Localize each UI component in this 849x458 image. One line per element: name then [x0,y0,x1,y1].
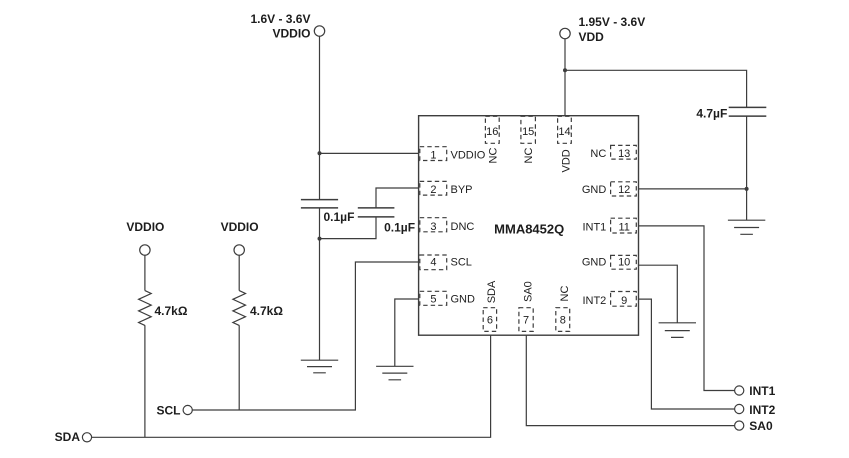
terminal circle VDD top right [560,28,570,38]
pin 12 dashed box [611,182,637,196]
wire R1 resistor to SDA line [144,255,146,437]
junction node pin1/VDDIO [318,151,322,155]
wire VDD branch to C3 [565,70,747,107]
svg-text:8: 8 [560,315,566,327]
pin 5 dashed box [420,291,447,305]
wire GND pin 5 to ground [395,299,419,366]
svg-text:NC: NC [523,148,535,164]
svg-text:VDDIO: VDDIO [126,220,164,234]
svg-text:9: 9 [621,295,627,307]
svg-text:1: 1 [430,149,436,161]
svg-text:SDA: SDA [486,280,498,303]
svg-text:NC: NC [590,148,606,160]
svg-text:VDD: VDD [561,149,573,172]
svg-text:VDD: VDD [579,30,605,44]
IC U1 MMA8452Q body [419,116,639,336]
junction node VDD branch [563,68,567,72]
svg-text:4: 4 [430,257,436,269]
pin 3 dashed box [420,218,447,232]
ground symbol below C1/C2 [301,360,338,373]
svg-text:11: 11 [618,222,629,234]
wire SCL pin 4 to SCL terminal [192,262,418,410]
wire SDA pin 6 to SDA terminal [92,335,491,437]
svg-text:GND: GND [582,184,607,196]
pin 13 dashed box [611,145,637,159]
wire VDDIO vertical from terminal to C1 top plate [319,36,321,199]
pin 14 dashed box [558,116,572,143]
svg-text:12: 12 [618,184,630,196]
pin 4 dashed box [420,255,447,270]
pin 1 dashed box [420,147,447,161]
wire C1 bottom down to ground [319,208,321,360]
svg-text:1.6V - 3.6V: 1.6V - 3.6V [250,12,310,26]
svg-text:INT1: INT1 [749,384,775,398]
junction node C2/ground [318,237,322,241]
ground symbol below pin 5 [376,366,413,380]
capacitor C3 4.7uF plates [729,107,767,116]
svg-text:BYP: BYP [451,184,473,196]
pin 6 dashed box [483,308,496,332]
svg-text:GND: GND [451,294,476,306]
wire INT1 pin 11 to INT1 terminal [639,226,735,391]
resistor R2 4.7k zigzag [233,291,246,326]
svg-text:NC: NC [487,148,499,164]
wire VDDIO to pin 1 [320,152,419,154]
svg-text:0.1µF: 0.1µF [384,221,415,235]
wire INT2 pin 9 to INT2 terminal [639,299,735,409]
svg-text:4.7kΩ: 4.7kΩ [250,304,283,318]
terminal circle INT1 [735,386,744,395]
resistor R1 4.7k zigzag [139,291,152,326]
svg-text:VDDIO: VDDIO [221,220,259,234]
svg-text:0.1µF: 0.1µF [324,210,355,224]
terminal circle SCL [183,405,192,414]
svg-text:INT2: INT2 [749,403,775,417]
svg-text:VDDIO: VDDIO [451,149,486,161]
svg-text:SCL: SCL [451,257,472,269]
svg-text:INT2: INT2 [582,295,606,307]
terminal circle R1 VDDIO [140,245,150,255]
svg-text:7: 7 [523,315,529,327]
svg-text:MMA8452Q: MMA8452Q [494,222,564,237]
svg-text:4.7µF: 4.7µF [696,106,727,120]
svg-text:DNC: DNC [451,221,475,233]
wire R2 resistor to SCL line [238,255,240,410]
terminal circle INT2 [735,404,744,413]
svg-text:NC: NC [559,286,571,302]
ground symbol below C3 [728,220,765,234]
terminal circle SA0 [735,421,744,430]
terminal circle SDA [82,433,91,442]
svg-text:SDA: SDA [55,430,81,444]
svg-text:GND: GND [582,256,607,268]
svg-text:SCL: SCL [157,403,181,417]
svg-text:1.95V - 3.6V: 1.95V - 3.6V [579,15,646,29]
pin 16 dashed box [485,116,499,143]
svg-text:VDDIO: VDDIO [272,26,310,40]
pin 7 dashed box [519,308,533,332]
pin 10 dashed box [611,255,637,269]
capacitor C1 0.1uF plates [301,200,338,208]
svg-text:15: 15 [522,126,534,138]
svg-text:3: 3 [430,221,436,233]
wire GND pin 10 to ground [639,265,678,323]
ground symbol below pin 10 [659,323,696,338]
svg-text:2: 2 [430,184,436,196]
capacitor C2 0.1uF plates [358,208,395,217]
svg-text:13: 13 [618,148,630,160]
svg-text:SA0: SA0 [522,281,534,302]
pin 9 dashed box [611,292,637,307]
svg-text:6: 6 [487,315,493,327]
wire SA0 pin 7 to SA0 terminal [526,335,734,425]
terminal circle R2 VDDIO [234,245,244,255]
pin 2 dashed box [420,181,447,195]
wire VDD terminal to pin 14 [564,39,566,116]
svg-text:SA0: SA0 [749,419,773,433]
pin 8 dashed box [556,308,570,332]
terminal circle VDDIO top left [314,26,324,36]
wire BYP pin 2 to C2 [376,188,419,208]
wire C3 bottom to ground [746,116,748,220]
svg-text:5: 5 [430,294,436,306]
svg-text:10: 10 [618,256,630,268]
wire GND pin 12 to junction [639,188,747,190]
wire C2 bottom to junction [320,217,377,239]
svg-text:4.7kΩ: 4.7kΩ [155,304,188,318]
svg-text:16: 16 [486,126,498,138]
junction node GND12/C3 [745,187,749,191]
svg-text:INT1: INT1 [582,222,606,234]
svg-text:14: 14 [558,126,570,138]
pin 15 dashed box [521,116,536,143]
pin 11 dashed box [611,218,637,233]
